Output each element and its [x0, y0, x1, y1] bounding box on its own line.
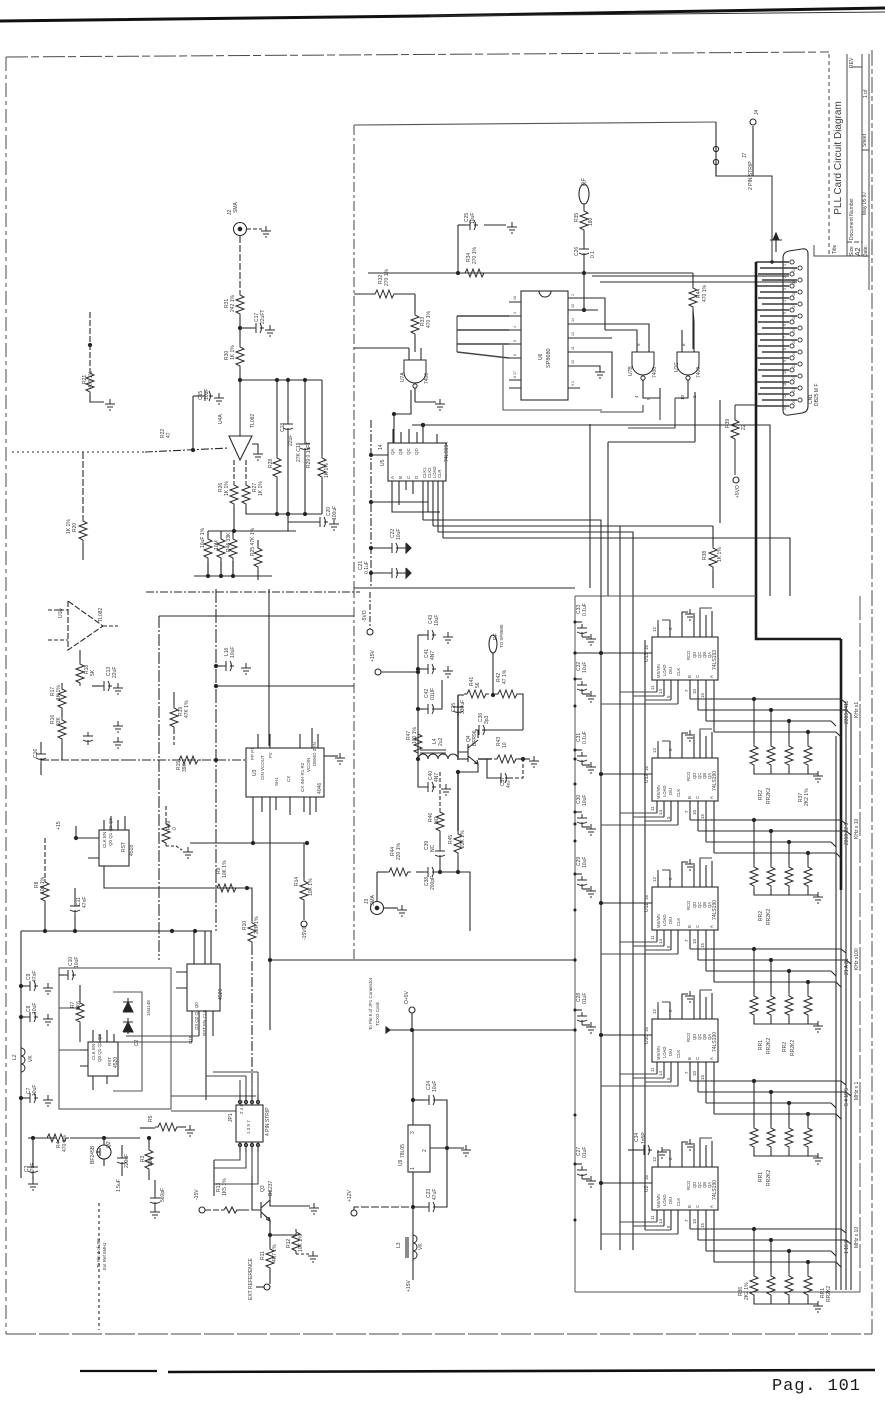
counter U10 74LS190: [599, 990, 851, 1164]
bus x601: [600, 596, 602, 1250]
svg-text:47uF: 47uF: [432, 1189, 438, 1200]
svg-text:2: 2: [571, 294, 575, 296]
capacitor C10: [59, 974, 64, 976]
svg-text:3: 3: [410, 1131, 416, 1134]
svg-text:J7: J7: [742, 153, 748, 159]
+15V bottom: [412, 1259, 414, 1280]
capacitor C16 bypass: [216, 665, 222, 667]
resistor R27: [242, 482, 250, 507]
box outline: [354, 122, 716, 125]
U8B pins bottom/left: [80, 1050, 107, 1090]
svg-text:May 05 97: May 05 97: [862, 191, 868, 215]
svg-text:U11: U11: [644, 903, 650, 912]
svg-text:SH1: SH1: [274, 777, 279, 786]
svg-text:R12: R12: [286, 1239, 292, 1248]
ground U7A: [415, 401, 436, 403]
svg-text:SP8680: SP8680: [546, 348, 552, 368]
svg-text:R25 47K 1%: R25 47K 1%: [250, 527, 256, 556]
svg-text:JP1: JP1: [228, 1113, 234, 1122]
svg-text:10uF: 10uF: [32, 1003, 38, 1014]
svg-text:C2: C2: [134, 1039, 140, 1046]
svg-text:1: 1: [783, 264, 787, 266]
svg-text:4 PIN STRIP: 4 PIN STRIP: [265, 1107, 271, 1136]
capacitor C20: [288, 521, 316, 523]
svg-text:C26: C26: [574, 247, 580, 256]
top scan bar: [0, 8, 885, 21]
svg-text:15: 15: [571, 304, 575, 308]
op-amp U4A TL082: [229, 436, 252, 460]
svg-text:22uF: 22uF: [112, 667, 118, 678]
svg-text:TL082: TL082: [98, 608, 104, 622]
transistor Q2 BF245B: [97, 1145, 111, 1159]
svg-text:+15V: +15V: [370, 650, 376, 662]
svg-text:4N7: 4N7: [430, 651, 436, 660]
svg-text:11: 11: [571, 346, 575, 350]
svg-text:R14: R14: [294, 877, 300, 886]
ladder R28: [276, 380, 278, 455]
wire y888: [104, 866, 247, 888]
svg-text:2u2: 2u2: [438, 737, 444, 746]
svg-text:7400: 7400: [424, 373, 430, 384]
svg-text:0.1uF: 0.1uF: [582, 731, 588, 744]
svg-text:220 1%: 220 1%: [396, 842, 402, 860]
JP1 pins bottom: [240, 1142, 258, 1152]
svg-text:RR2: RR2: [758, 911, 764, 921]
+5V arrow node: [770, 233, 782, 252]
capacitor C3: [32, 1138, 34, 1163]
wire to base: [458, 758, 468, 760]
svg-text:1K 1%: 1K 1%: [717, 547, 723, 562]
diode box: [113, 992, 142, 1091]
counter U2 74LS190: [599, 1138, 851, 1312]
ground C17: [265, 325, 275, 336]
svg-text:19: 19: [792, 328, 796, 332]
ground mid: [580, 366, 600, 370]
wire to J4: [716, 122, 753, 176]
resistor R46: [439, 772, 441, 809]
resistor R43: [478, 758, 492, 760]
svg-text:MHz x 1: MHz x 1: [854, 1081, 860, 1100]
svg-text:4520: 4520: [218, 989, 224, 1000]
svg-text:To Pin 5 of JP1 Connector: To Pin 5 of JP1 Connector: [368, 977, 373, 1030]
wire to R11 R12: [269, 1228, 271, 1235]
svg-text:20: 20: [792, 340, 796, 344]
svg-text:R11: R11: [260, 1251, 266, 1260]
wire down to U6: [583, 258, 585, 310]
svg-text:5: 5: [513, 340, 517, 342]
svg-text:+15V: +15V: [406, 1280, 412, 1292]
bus line b: [840, 890, 842, 1290]
svg-text:TL082: TL082: [250, 414, 256, 428]
U6 right pins: [568, 298, 590, 388]
main top rail: [368, 272, 693, 274]
svg-text:DB25 M F: DB25 M F: [814, 383, 820, 406]
svg-text:560pF: 560pF: [160, 1188, 166, 1202]
resistor R17: [61, 683, 63, 686]
resistor R21: [89, 312, 91, 370]
diode D1 1N4148: [123, 998, 133, 1012]
svg-text:1K 1%: 1K 1%: [258, 481, 264, 496]
svg-text:5: 5: [783, 312, 787, 314]
box inner bottom: [503, 345, 602, 410]
wires down from gates: [600, 398, 675, 428]
svg-text:7: 7: [783, 336, 787, 338]
svg-text:10uF: 10uF: [204, 389, 210, 400]
svg-text:PP P1: PP P1: [250, 747, 255, 760]
svg-text:74LS193: 74LS193: [712, 650, 718, 670]
svg-text:4n7: 4n7: [506, 779, 512, 788]
resistor R24: [220, 531, 222, 536]
resistor R35: [580, 208, 588, 233]
junction: [416, 757, 419, 760]
resistor R25: [257, 540, 259, 545]
svg-text:78L05: 78L05: [400, 1144, 406, 1158]
capacitor C35: [453, 703, 463, 716]
long bus dashdot A: [146, 591, 360, 593]
EXT REFERENCE terminal: [264, 1284, 270, 1290]
+5VO terminal: [733, 477, 739, 483]
svg-text:U3: U3: [252, 769, 258, 776]
node rail: [41, 759, 127, 761]
capacitor C29: [575, 873, 582, 875]
svg-text:10: 10: [680, 394, 685, 400]
svg-text:A2: A2: [855, 247, 862, 256]
vertical left x458: [457, 695, 459, 760]
svg-text:47nF: 47nF: [82, 897, 88, 908]
svg-text:-15V: -15V: [194, 1189, 200, 1200]
svg-text:0.1uF: 0.1uF: [582, 603, 588, 616]
U5 bottom pins: [392, 481, 443, 538]
svg-text:6: 6: [783, 324, 787, 326]
svg-text:1 3 5 7: 1 3 5 7: [246, 1120, 251, 1134]
resistor R31: [236, 292, 244, 317]
capacitor C19: [304, 380, 306, 440]
svg-text:U7C: U7C: [674, 362, 680, 372]
junction dots on +5V edge bus: [574, 621, 577, 1222]
svg-text:10uF: 10uF: [582, 662, 588, 673]
EXT ref dashed line: [98, 1203, 100, 1330]
svg-text:1K 1%: 1K 1%: [224, 481, 230, 496]
connector J4: [750, 119, 756, 125]
svg-text:R29 0.1uFT: R29 0.1uFT: [306, 442, 312, 468]
svg-text:R45: R45: [448, 835, 454, 844]
capacitor C23: [413, 1206, 425, 1208]
svg-text:RR2: RR2: [782, 1042, 788, 1052]
RF to SP8680 oval: [489, 635, 497, 653]
svg-text:Q0 Q1 Q2 Q3: Q0 Q1 Q2 Q3: [108, 818, 113, 846]
svg-text:C34: C34: [634, 1133, 640, 1142]
node dot: [88, 343, 91, 346]
svg-text:2318 22 9: 2318 22 9: [844, 823, 850, 845]
resistor R41: [458, 694, 464, 696]
svg-text:R20: R20: [72, 523, 78, 532]
svg-text:56: 56: [475, 682, 481, 688]
svg-text:DEMO ZEN: DEMO ZEN: [312, 742, 317, 766]
svg-text:22K 1%: 22K 1%: [460, 830, 466, 848]
resistor R44: [692, 273, 694, 285]
+12V terminal: [351, 1210, 357, 1216]
U8B pins top: [93, 1030, 114, 1042]
svg-text:3p3: 3p3: [484, 715, 490, 724]
svg-text:5 4 10 5: 5 4 10 5: [844, 1088, 850, 1106]
U8A top pins: [104, 816, 125, 830]
svg-text:SMA: SMA: [233, 202, 239, 214]
svg-text:10uF 1%: 10uF 1%: [200, 527, 206, 548]
svg-text:10: 10: [571, 360, 575, 364]
svg-text:47 1%: 47 1%: [502, 669, 508, 684]
svg-text:NC: NC: [434, 816, 440, 824]
capacitor C36: [482, 729, 487, 731]
bus line d: [850, 714, 852, 1290]
svg-text:KHz x1: KHz x1: [854, 702, 860, 718]
svg-text:5K: 5K: [90, 669, 96, 676]
svg-text:QB: QB: [398, 448, 403, 455]
svg-text:R10: R10: [242, 921, 248, 930]
svg-text:390: 390: [148, 1157, 154, 1166]
wire from R45 to rail 960: [458, 872, 470, 931]
svg-text:QD: QD: [414, 447, 419, 455]
svg-text:J4: J4: [754, 110, 760, 116]
capacitor C21: [371, 572, 388, 574]
resistor R49: [165, 806, 167, 821]
cap 560pF: [154, 1180, 156, 1194]
resistor R48: [232, 531, 234, 536]
resistor R33: [414, 294, 416, 312]
wires into U6 left: [457, 316, 509, 358]
-5VO terminal: [367, 629, 373, 635]
svg-text:1 16 2: 1 16 2: [844, 1240, 850, 1254]
resistor R7: [79, 985, 81, 1000]
svg-text:180: 180: [588, 217, 594, 226]
capacitor C11: [74, 888, 76, 902]
capacitor C28: [575, 1009, 582, 1011]
svg-text:-5VO: -5VO: [362, 610, 368, 622]
U3 bottom pins: [253, 797, 316, 843]
connector J7 2 pin strip: [713, 146, 718, 151]
wire dashdot to 4046: [127, 759, 246, 761]
svg-text:RR1: RR1: [758, 1172, 764, 1182]
svg-text:10K 1%: 10K 1%: [222, 860, 228, 878]
svg-text:4046: 4046: [317, 783, 323, 794]
wire left dashdot: [12, 451, 145, 453]
svg-text:Q2: Q2: [106, 1141, 112, 1148]
svg-text:P2: P2: [268, 752, 273, 758]
svg-text:10uF: 10uF: [470, 213, 476, 224]
svg-text:4N7: 4N7: [434, 773, 440, 782]
svg-text:21 A 21: 21 A 21: [844, 958, 850, 975]
svg-text:Sheet: Sheet: [862, 133, 868, 147]
IC U3 4046: [246, 748, 324, 797]
capacitor C31: [575, 749, 582, 751]
svg-text:U9: U9: [398, 1159, 404, 1166]
svg-text:1n5P: 1n5P: [641, 1132, 647, 1144]
bus x633: [632, 600, 634, 1250]
svg-text:200pF: 200pF: [430, 876, 436, 890]
svg-text:470 1%: 470 1%: [88, 370, 94, 388]
vertical bus x216: [215, 589, 217, 931]
svg-text:-15VO: -15VO: [302, 925, 308, 940]
wire: [239, 317, 241, 344]
svg-text:NC: NC: [430, 844, 436, 852]
svg-text:U1B: U1B: [58, 608, 64, 618]
inductor L4: [418, 754, 458, 759]
resistor R9: [214, 884, 239, 892]
wire y686 branch: [216, 685, 354, 687]
svg-text:2 4 6 8: 2 4 6 8: [239, 1100, 244, 1114]
svg-text:Date:: Date:: [863, 245, 869, 257]
rails to JP1: [171, 1096, 256, 1111]
svg-text:U4A: U4A: [218, 414, 224, 424]
svg-text:6: 6: [513, 354, 517, 356]
wire pin2 long: [592, 275, 789, 277]
svg-text:A: A: [390, 476, 395, 479]
svg-text:RR2: RR2: [758, 790, 764, 800]
capacitor C42: [418, 708, 424, 710]
labels lower left: [12, 957, 304, 1300]
box outline: [574, 596, 576, 1292]
svg-text:10K 1%: 10K 1%: [308, 878, 314, 896]
svg-text:R35: R35: [574, 213, 580, 222]
input wire dashdot: [145, 448, 229, 452]
capacitor C25: [458, 224, 466, 226]
svg-text:10uF: 10uF: [582, 795, 588, 806]
svg-text:7400: 7400: [652, 367, 658, 378]
capacitor C30: [575, 811, 582, 813]
capacitor C34: [628, 1149, 640, 1151]
svg-text:RR2K2: RR2K2: [766, 909, 772, 925]
svg-text:R5: R5: [148, 1115, 154, 1122]
svg-text:VK: VK: [28, 1055, 34, 1062]
CN1 wire comb: [756, 262, 797, 406]
svg-text:4: 4: [783, 300, 787, 302]
svg-text:PLL Card Circuit Diagram: PLL Card Circuit Diagram: [833, 101, 844, 215]
capacitor C41: [418, 668, 424, 670]
svg-text:47nF: 47nF: [32, 971, 38, 982]
svg-text:Q0 Q1 Q2 Q3: Q0 Q1 Q2 Q3: [97, 1034, 102, 1062]
IC U8A 4518: [99, 830, 129, 866]
svg-text:01uF: 01uF: [582, 993, 588, 1004]
counter U13 74LS193: [599, 608, 851, 782]
svg-text:74LS190: 74LS190: [712, 900, 718, 920]
svg-text:4: 4: [634, 395, 639, 398]
U6 pin numbers: [513, 294, 575, 386]
resistor R4: [44, 1134, 69, 1142]
svg-text:13: 13: [783, 406, 787, 410]
svg-text:10uF: 10uF: [434, 615, 440, 626]
svg-text:KHz x100: KHz x100: [854, 948, 860, 970]
svg-text:10: 10: [502, 742, 508, 748]
op-amp U1B: [68, 601, 103, 650]
svg-text:2: 2: [422, 1149, 428, 1152]
capacitor C32: [575, 678, 582, 680]
svg-text:9 1: 9 1: [571, 381, 575, 386]
labels top left: [66, 202, 338, 557]
svg-text:RF: RF: [582, 178, 588, 186]
svg-text:8 17: 8 17: [513, 371, 517, 378]
svg-text:BF245B: BF245B: [90, 1145, 96, 1164]
svg-text:C18: C18: [280, 423, 286, 432]
svg-text:74LS190: 74LS190: [712, 1180, 718, 1200]
svg-text:10: 10: [783, 370, 787, 374]
svg-text:1N4148: 1N4148: [146, 1000, 151, 1016]
left rail x21: [20, 931, 22, 1178]
wire RF to R35: [583, 204, 585, 208]
capacitor C27: [575, 1163, 582, 1165]
resistor R30: [236, 344, 244, 369]
resistor R23: [207, 531, 209, 536]
resistor R32: [354, 293, 372, 295]
wire U7C output mesh: [608, 392, 695, 596]
resistor R16: [58, 717, 66, 742]
svg-text:7400: 7400: [696, 367, 702, 378]
ground R21: [105, 399, 115, 410]
bus line a: [835, 736, 837, 1290]
labels power: [347, 977, 438, 1292]
lower rail: [208, 530, 296, 532]
svg-text:U7B: U7B: [628, 366, 634, 376]
svg-text:2K2 1%: 2K2 1%: [804, 788, 810, 806]
svg-text:14: 14: [378, 444, 384, 450]
resistor R3: [148, 1138, 150, 1147]
svg-text:CLK EN: CLK EN: [91, 1044, 96, 1060]
resistor R19: [173, 692, 175, 705]
long rail y588: [354, 587, 575, 589]
+15V stub: [76, 826, 88, 838]
svg-text:Q3 Q2 Q1 Q0: Q3 Q2 Q1 Q0: [194, 1002, 199, 1030]
svg-text:RST: RST: [121, 842, 127, 852]
wire down: [412, 1172, 414, 1262]
wire J2 to ground right: [247, 228, 262, 230]
svg-text:4520: 4520: [113, 1057, 119, 1068]
U3 right ground: [324, 755, 338, 757]
svg-text:U13: U13: [644, 653, 650, 662]
capacitor C7: [21, 1097, 26, 1099]
svg-text:1 of: 1 of: [863, 89, 869, 98]
svg-text:27K C19: 27K C19: [296, 442, 302, 462]
svg-text:R28: R28: [268, 459, 274, 468]
gates U7B U7C: [632, 352, 654, 380]
long rail y960: [270, 959, 575, 961]
svg-text:U2: U2: [644, 1185, 650, 1192]
junction on bus: [214, 758, 217, 761]
U6 left pins: [509, 302, 521, 380]
svg-text:L2: L2: [12, 1054, 18, 1060]
wire y843: [190, 842, 307, 844]
capacitor C8: [21, 1016, 26, 1018]
resistor R15: [176, 756, 201, 764]
svg-text:+12V: +12V: [347, 1190, 353, 1202]
svg-text:Title: Title: [832, 245, 838, 254]
svg-text:10K 1%: 10K 1%: [298, 1234, 304, 1252]
junction 575-960: [573, 958, 576, 961]
capacitor C18: [287, 380, 289, 420]
svg-text:2K2 1%: 2K2 1%: [744, 1282, 750, 1300]
svg-text:TCXO Cord: TCXO Cord: [375, 1002, 380, 1026]
svg-text:L3: L3: [396, 1242, 402, 1248]
capacitor C220: [121, 1145, 123, 1154]
svg-text:100 1%: 100 1%: [412, 726, 418, 744]
svg-text:22: 22: [741, 424, 747, 430]
resistor R12: [295, 1229, 297, 1235]
svg-text:25: 25: [792, 400, 796, 404]
inductor L2: [21, 1048, 25, 1072]
svg-text:23: 23: [792, 376, 796, 380]
svg-text:RST EN CLK: RST EN CLK: [202, 1010, 207, 1036]
wire mesh lowleft: [59, 1008, 80, 1050]
capacitor C33: [575, 621, 582, 623]
RF oval out: [579, 184, 589, 204]
capacitor C9: [21, 985, 26, 987]
